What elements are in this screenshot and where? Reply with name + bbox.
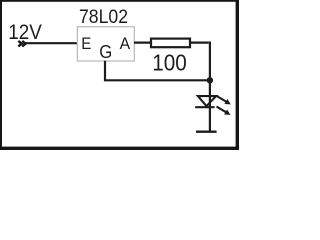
- wire 12V input to regulator pin E: [26, 42, 78, 44]
- svg-text:12V: 12V: [8, 21, 42, 44]
- junction node dot: [207, 77, 213, 83]
- LED emission arrow upper: [217, 96, 231, 104]
- frame border bottom: [0, 147, 239, 150]
- frame border left: [0, 0, 2, 150]
- resistor R1 body: [151, 39, 190, 48]
- frame border right: [236, 0, 239, 150]
- wire regulator pin A to resistor: [134, 41, 151, 43]
- frame border top: [0, 0, 239, 2]
- LED D1 triangle (anode): [198, 96, 216, 106]
- wire regulator pin G down and right to junction: [105, 61, 210, 81]
- wire vertical rail to LED: [209, 42, 211, 132]
- svg-text:E: E: [81, 34, 91, 53]
- voltage regulator U1 78L02 box: [77, 27, 134, 61]
- svg-text:G: G: [99, 41, 112, 62]
- wire resistor to vertical rail: [190, 41, 209, 43]
- svg-text:78L02: 78L02: [79, 7, 128, 28]
- ground rail bar below LED: [196, 130, 217, 132]
- connector input chevrons 12V: [18, 41, 25, 47]
- LED D1 cathode bar: [195, 106, 214, 108]
- LED emission arrow lower: [217, 107, 231, 115]
- svg-text:100: 100: [152, 49, 187, 75]
- svg-text:A: A: [120, 34, 131, 53]
